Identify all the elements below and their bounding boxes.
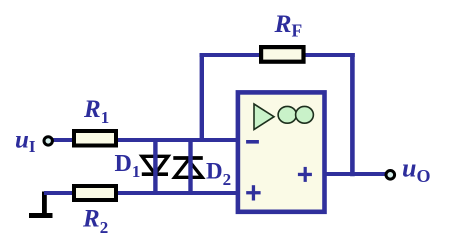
svg-text:D1: D1: [115, 151, 141, 181]
op-amp gain triangle: [254, 104, 274, 130]
svg-text:uI: uI: [15, 127, 36, 157]
diode D2: [173, 158, 203, 177]
op-amp infinity circle right: [296, 106, 314, 123]
resistor RF: [261, 47, 303, 62]
wire: feedback right vertical: [350, 53, 355, 176]
svg-text:R1: R1: [83, 96, 109, 127]
wire: output: [322, 172, 386, 176]
resistor R2: [74, 186, 116, 200]
wire: input to inverting input (through R1): [50, 138, 240, 142]
wire: feedback left vertical: [200, 53, 204, 142]
ground: [29, 192, 53, 219]
wire: feedback top horizontal (through RF): [200, 53, 355, 57]
diode D1: [142, 156, 168, 174]
svg-text:R2: R2: [82, 206, 108, 238]
non-inverting input plus sign: [246, 185, 260, 200]
wire: D1 branch vertical: [153, 140, 157, 193]
svg-text:uO: uO: [402, 154, 430, 187]
wire: ground to non-inverting input (through R2): [44, 191, 240, 195]
svg-text:D2: D2: [206, 159, 231, 190]
svg-text:RF: RF: [274, 9, 303, 41]
resistor R1: [74, 131, 116, 146]
inverting input minus sign: [246, 140, 259, 144]
output plus sign: [298, 167, 312, 182]
wire: D2 branch vertical: [188, 140, 192, 193]
op-amp infinity circle left: [278, 106, 296, 123]
op-amp U1 body: [238, 92, 325, 211]
input terminal node uI: [44, 137, 52, 145]
output terminal node uO: [386, 171, 395, 180]
